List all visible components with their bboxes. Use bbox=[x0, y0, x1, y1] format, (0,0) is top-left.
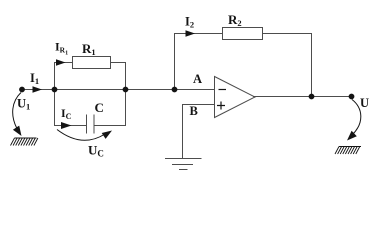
svg-text:B: B bbox=[190, 104, 198, 118]
svg-text:U: U bbox=[360, 96, 369, 110]
svg-text:C: C bbox=[95, 100, 104, 115]
svg-text:A: A bbox=[193, 72, 202, 86]
